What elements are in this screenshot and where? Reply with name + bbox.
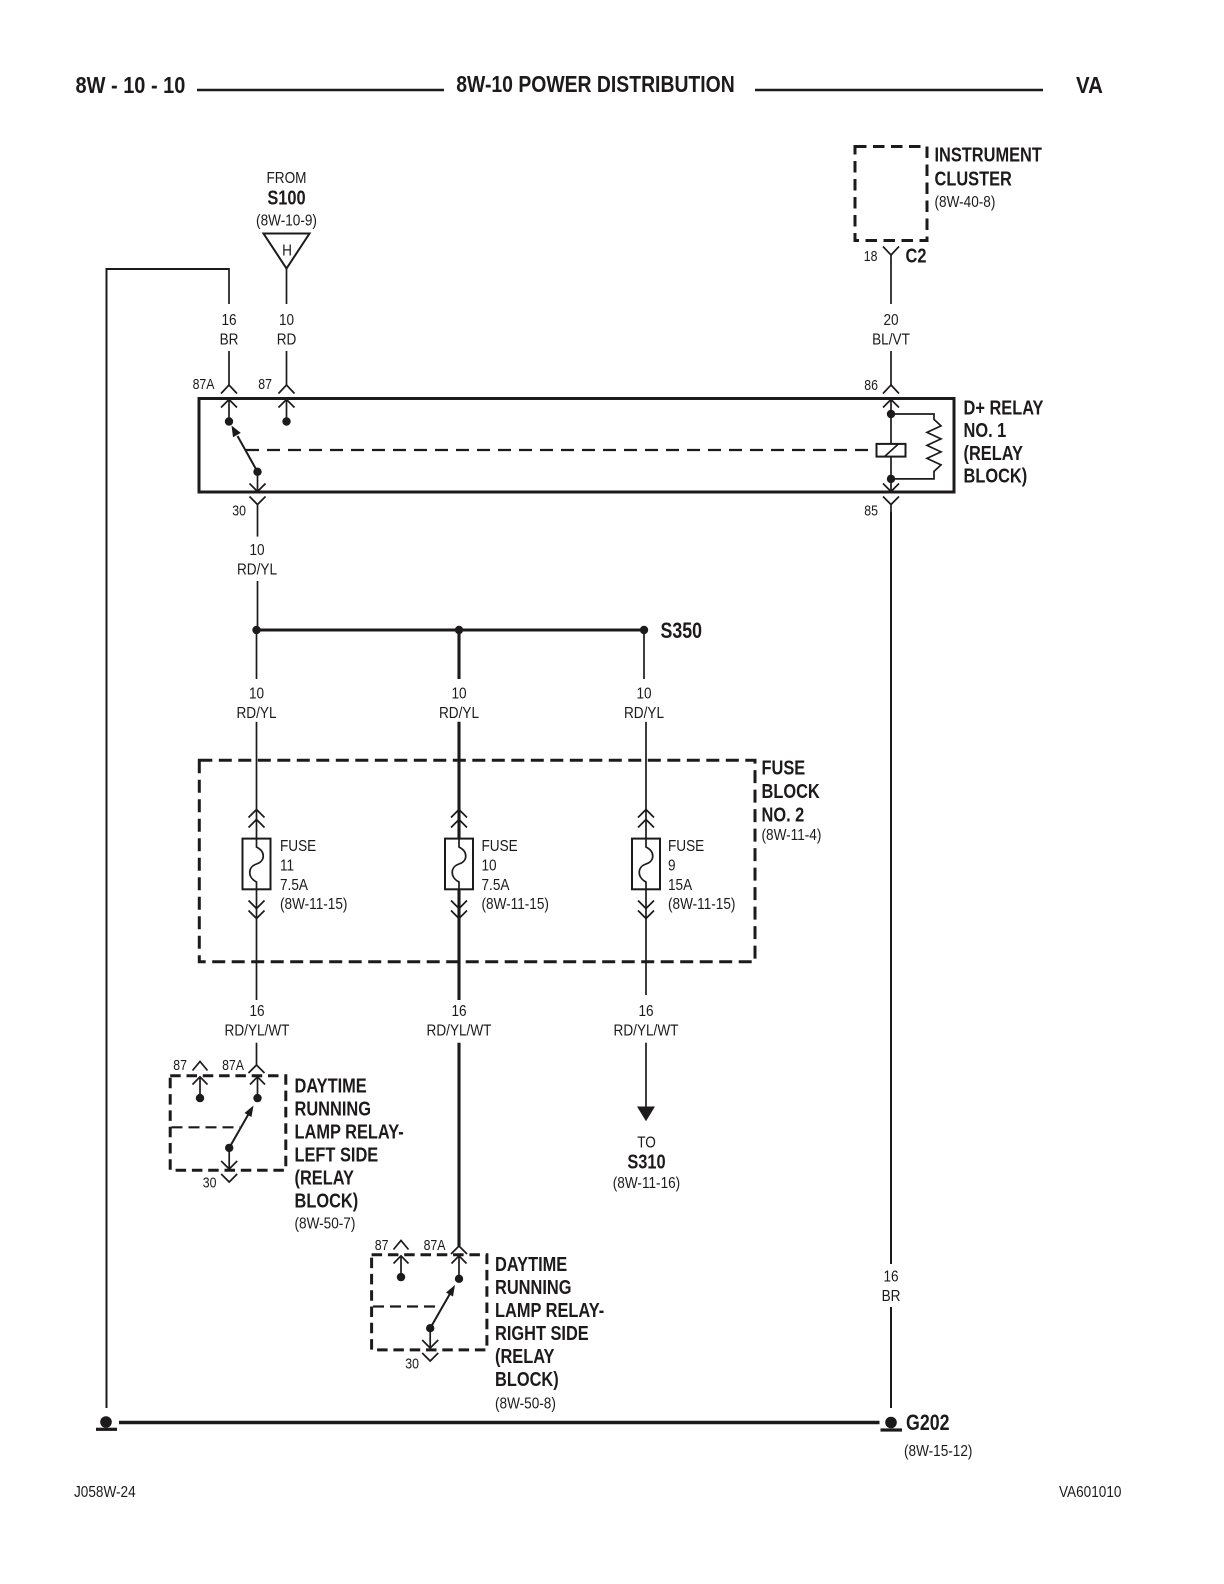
fuse 9 upper band clip — [638, 810, 654, 828]
pin 86 label — [864, 377, 878, 393]
header rule right — [755, 89, 1043, 92]
junction dot DRL left switch common — [225, 1144, 233, 1152]
svg-text:(8W-11-15): (8W-11-15) — [280, 896, 347, 913]
svg-text:85: 85 — [864, 503, 878, 519]
svg-text:BLOCK): BLOCK) — [295, 1189, 359, 1212]
connector C2 label — [906, 244, 927, 267]
svg-text:FUSE: FUSE — [668, 838, 704, 855]
svg-text:RD/YL/WT: RD/YL/WT — [427, 1023, 492, 1040]
header rule left — [197, 89, 444, 92]
instrument cluster labels — [935, 143, 1042, 211]
fuse block no.2 dashed box — [199, 760, 755, 962]
svg-text:INSTRUMENT: INSTRUMENT — [935, 143, 1042, 166]
svg-text:RUNNING: RUNNING — [495, 1276, 571, 1299]
svg-text:(RELAY: (RELAY — [964, 441, 1023, 464]
wire into fuse 9 — [645, 722, 647, 839]
relay coil wire through actuator — [890, 414, 892, 479]
label branch1 16 RD/YL/WT — [225, 1003, 290, 1040]
ground G202 reference label — [904, 1443, 972, 1460]
page header right title VA — [1076, 72, 1103, 99]
DRL left pin 87 internal arrow — [193, 1077, 208, 1095]
svg-text:BLOCK: BLOCK — [762, 779, 821, 802]
svg-text:S100: S100 — [267, 186, 305, 209]
svg-text:S310: S310 — [627, 1150, 665, 1173]
svg-text:CLUSTER: CLUSTER — [935, 167, 1012, 190]
label wire 16 BR right — [882, 1269, 901, 1306]
wire 16 BR right upper segment — [890, 512, 892, 1264]
off-page arrow to S310 — [637, 1107, 655, 1122]
junction dot S350 middle — [455, 626, 463, 634]
svg-text:FROM: FROM — [267, 170, 307, 187]
svg-text:87A: 87A — [193, 376, 215, 392]
label wire 20 BL/VT — [872, 312, 910, 349]
pin 87 internal arrow and stub — [279, 400, 295, 419]
splice S350 bus line — [256, 628, 644, 631]
svg-text:RUNNING: RUNNING — [295, 1097, 371, 1120]
wire out of fuse 9 — [645, 889, 647, 995]
svg-text:(RELAY: (RELAY — [495, 1345, 554, 1368]
off-page connector triangle H — [264, 234, 310, 269]
pin 30 internal arrow — [250, 472, 266, 492]
wire into fuse 11 — [256, 722, 258, 839]
label wire 16 BR — [220, 312, 239, 349]
connector terminal 87 DRL left (no wire) — [193, 1062, 208, 1071]
svg-text:D+ RELAY: D+ RELAY — [964, 396, 1044, 419]
DRL right pin 87A internal arrow — [452, 1256, 467, 1275]
wire out of fuse 11 — [256, 889, 258, 1000]
svg-text:G202: G202 — [906, 1411, 949, 1435]
svg-text:RD: RD — [277, 332, 297, 349]
relay internal dashed control link — [246, 449, 877, 451]
svg-text:86: 86 — [864, 377, 878, 393]
junction dot DRL left 87 — [196, 1094, 204, 1102]
svg-text:LAMP RELAY-: LAMP RELAY- — [495, 1299, 604, 1322]
svg-text:10: 10 — [279, 312, 294, 329]
ground bus line — [119, 1421, 880, 1424]
svg-text:FUSE: FUSE — [762, 756, 806, 779]
pin 30 label — [232, 503, 246, 519]
svg-text:NO. 2: NO. 2 — [762, 803, 805, 826]
fuse 9 labels — [668, 838, 735, 913]
svg-text:11: 11 — [280, 857, 294, 874]
svg-text:30: 30 — [405, 1356, 419, 1372]
svg-text:16: 16 — [221, 312, 236, 329]
wire branch 2 upper — [457, 630, 460, 679]
junction dot DRL right 87 — [397, 1273, 405, 1281]
connector C2 symbol — [883, 247, 899, 263]
label branch1 10 RD/YL — [236, 686, 276, 723]
svg-text:DAYTIME: DAYTIME — [495, 1253, 567, 1276]
pin 87A label DRL right — [424, 1237, 446, 1253]
junction dot 87 — [282, 417, 290, 425]
svg-text:(8W-50-7): (8W-50-7) — [295, 1216, 356, 1233]
pin 18 label — [864, 248, 878, 264]
wire 10 RD/YL from pin 30 upper — [257, 512, 259, 537]
junction dot switch common — [253, 468, 261, 476]
svg-text:FUSE: FUSE — [482, 838, 518, 855]
off-page reference FROM S100 labels — [256, 170, 317, 230]
wire branch 3 upper — [643, 630, 645, 679]
fuse 11 upper band clip — [249, 810, 265, 828]
ground terminal right bar — [881, 1428, 903, 1431]
svg-text:10: 10 — [482, 857, 497, 874]
svg-text:NO. 1: NO. 1 — [964, 419, 1007, 442]
fuse 10 lower band clip — [451, 901, 467, 919]
svg-text:20: 20 — [883, 312, 898, 329]
DRL right pin 30 internal arrow — [422, 1328, 438, 1348]
wire left vertical bus from node to ground — [106, 269, 108, 1408]
label wire 10 RD — [277, 312, 297, 349]
daytime running lamp relay right dashed box — [372, 1255, 487, 1350]
DRL left internal dashed control link — [172, 1126, 241, 1128]
DRL right pin 87 internal arrow — [394, 1256, 409, 1274]
wire 10 RD lower segment — [286, 351, 288, 385]
pin 85 internal arrow — [883, 481, 899, 492]
svg-text:87: 87 — [173, 1057, 187, 1073]
wire into fuse 10 — [457, 722, 460, 839]
wire 16 BR lower segment — [228, 351, 230, 385]
svg-text:(8W-11-15): (8W-11-15) — [482, 896, 549, 913]
pin 86 internal arrow and stub — [883, 400, 899, 412]
fuse 11 labels — [280, 838, 347, 913]
svg-text:10: 10 — [249, 542, 264, 559]
fuse 9 lower band clip — [638, 901, 654, 919]
label branch3 10 RD/YL — [624, 686, 664, 723]
junction dot 85 — [887, 475, 895, 483]
junction dot DRL right switch common — [426, 1324, 434, 1332]
relay coil resistance loop — [893, 414, 941, 479]
svg-text:S350: S350 — [661, 619, 703, 643]
connector terminal 30 DRL left — [221, 1174, 237, 1182]
connector terminal 30 DRL right — [422, 1353, 438, 1361]
svg-text:(8W-50-8): (8W-50-8) — [495, 1395, 556, 1412]
label branch2 10 RD/YL — [439, 686, 479, 723]
connector terminal 87A DRL left — [249, 1065, 265, 1073]
D+ relay name labels — [964, 396, 1044, 487]
svg-text:VA601010: VA601010 — [1059, 1484, 1121, 1501]
wire to DRL right relay — [457, 1043, 460, 1246]
svg-text:87A: 87A — [424, 1237, 446, 1253]
wire 20 BL/VT upper segment — [890, 262, 892, 304]
svg-text:RIGHT SIDE: RIGHT SIDE — [495, 1322, 589, 1345]
junction dot DRL right 87A — [455, 1275, 463, 1283]
page header center title 8W-10 POWER DISTRIBUTION — [456, 71, 734, 97]
svg-text:8W-10 POWER DISTRIBUTION: 8W-10 POWER DISTRIBUTION — [456, 71, 734, 97]
junction dot S350 left — [252, 626, 260, 634]
pin 87A label — [193, 376, 215, 392]
DRL left pin 87A internal arrow — [250, 1077, 265, 1095]
daytime running lamp relay left dashed box — [170, 1076, 286, 1170]
wire 10 RD/YL lower to splice — [257, 581, 259, 630]
svg-text:BR: BR — [220, 332, 239, 349]
pin 85 label — [864, 503, 878, 519]
DRL right internal dashed control link — [373, 1305, 441, 1307]
fuse 10 body — [445, 839, 473, 890]
connector terminal 30 below box — [250, 497, 266, 513]
wire 10 RD upper segment — [286, 269, 288, 305]
ground terminal left bar — [96, 1428, 117, 1431]
svg-text:7.5A: 7.5A — [280, 877, 308, 894]
pin 30 label DRL right — [405, 1356, 419, 1372]
svg-text:10: 10 — [451, 686, 466, 703]
DRL left switch arm with arrowhead — [229, 1106, 253, 1148]
svg-text:LAMP RELAY-: LAMP RELAY- — [295, 1120, 404, 1143]
svg-text:87: 87 — [375, 1237, 389, 1253]
svg-text:8W - 10 - 10: 8W - 10 - 10 — [76, 71, 186, 98]
junction dot 86 — [887, 410, 895, 418]
svg-text:16: 16 — [249, 1003, 264, 1020]
wire to S310 — [645, 1043, 647, 1108]
fuse 10 upper band clip — [451, 810, 467, 828]
svg-text:18: 18 — [864, 248, 878, 264]
svg-text:9: 9 — [668, 857, 676, 874]
pin 87 label DRL right — [375, 1237, 389, 1253]
svg-text:C2: C2 — [906, 244, 927, 267]
connector terminal 85 below box — [883, 497, 899, 513]
pin 30 label DRL left — [203, 1175, 217, 1191]
svg-text:RD/YL: RD/YL — [624, 705, 664, 722]
junction dot DRL left 87A — [253, 1094, 261, 1102]
wire 20 BL/VT lower segment — [890, 351, 892, 385]
svg-text:(8W-40-8): (8W-40-8) — [935, 194, 996, 211]
pin 87 label DRL left — [173, 1057, 187, 1073]
svg-text:BLOCK): BLOCK) — [495, 1368, 559, 1391]
svg-text:30: 30 — [232, 503, 246, 519]
svg-text:LEFT SIDE: LEFT SIDE — [295, 1143, 379, 1166]
svg-text:(8W-10-9): (8W-10-9) — [256, 213, 317, 230]
svg-text:15A: 15A — [668, 877, 692, 894]
DRL right name labels — [495, 1253, 604, 1413]
svg-text:RD/YL: RD/YL — [439, 705, 479, 722]
pin 87A label DRL left — [222, 1057, 244, 1073]
wire horizontal top left — [106, 268, 230, 270]
junction dot S350 right — [640, 626, 648, 634]
connector terminal 87 DRL right (no wire) — [394, 1241, 409, 1250]
wire 16 BR right lower segment — [890, 1307, 892, 1408]
svg-text:BL/VT: BL/VT — [872, 332, 910, 349]
svg-text:(8W-11-4): (8W-11-4) — [762, 827, 822, 844]
svg-text:H: H — [282, 243, 292, 260]
svg-text:BR: BR — [882, 1288, 901, 1305]
instrument cluster dashed box — [855, 147, 927, 241]
pin 87A internal arrow and stub — [221, 400, 237, 419]
label wire 10 RD/YL — [237, 542, 277, 579]
fuse 11 body — [243, 839, 271, 890]
footer right code VA601010 — [1059, 1484, 1121, 1501]
svg-text:(8W-11-15): (8W-11-15) — [668, 896, 735, 913]
connector terminal 87A DRL right — [451, 1246, 467, 1254]
DRL right switch arm with arrowhead — [430, 1285, 455, 1328]
wire 16 BR upper segment — [228, 268, 230, 304]
wire to DRL left relay — [256, 1043, 258, 1065]
svg-text:RD/YL/WT: RD/YL/WT — [225, 1023, 290, 1040]
svg-text:DAYTIME: DAYTIME — [295, 1074, 367, 1097]
svg-text:RD/YL: RD/YL — [236, 705, 276, 722]
connector terminal 87 (female symbol) — [279, 385, 295, 394]
off-page reference TO S310 labels — [613, 1135, 680, 1193]
wire out of fuse 10 — [457, 889, 460, 1000]
pin 87 label — [258, 376, 272, 392]
page header left title 8W - 10 - 10 — [76, 71, 186, 98]
connector terminal 86 (female symbol) — [883, 385, 899, 394]
relay coil actuator box with slash — [877, 444, 906, 457]
fuse 11 lower band clip — [249, 901, 265, 919]
svg-text:(8W-15-12): (8W-15-12) — [904, 1443, 972, 1460]
relay block D+ relay no.1 outline box — [199, 399, 954, 493]
splice S350 label — [661, 619, 703, 643]
fuse 9 body — [632, 839, 660, 890]
wire branch 1 upper — [256, 630, 258, 679]
svg-text:16: 16 — [638, 1003, 653, 1020]
svg-text:30: 30 — [203, 1175, 217, 1191]
fuse block no.2 labels — [762, 756, 822, 844]
connector terminal 87A (female symbol) — [221, 385, 237, 394]
svg-text:87: 87 — [258, 376, 272, 392]
label branch2 16 RD/YL/WT — [427, 1003, 492, 1040]
DRL left name labels — [295, 1074, 404, 1233]
svg-text:10: 10 — [249, 686, 264, 703]
svg-text:BLOCK): BLOCK) — [964, 464, 1028, 487]
footer left code J058W-24 — [74, 1484, 136, 1501]
svg-text:J058W-24: J058W-24 — [74, 1484, 136, 1501]
label branch3 16 RD/YL/WT — [614, 1003, 679, 1040]
ground terminal left dot — [100, 1416, 112, 1428]
svg-text:16: 16 — [883, 1269, 898, 1286]
svg-text:RD/YL/WT: RD/YL/WT — [614, 1023, 679, 1040]
switch arm with arrowhead (relay contact) — [232, 426, 258, 472]
ground G202 label — [906, 1411, 949, 1435]
svg-text:FUSE: FUSE — [280, 838, 316, 855]
svg-text:RD/YL: RD/YL — [237, 562, 277, 579]
ground terminal right dot — [885, 1417, 897, 1429]
DRL left pin 30 internal arrow — [221, 1148, 237, 1169]
svg-text:(8W-11-16): (8W-11-16) — [613, 1175, 680, 1192]
svg-text:10: 10 — [636, 686, 651, 703]
svg-text:(RELAY: (RELAY — [295, 1166, 354, 1189]
svg-text:87A: 87A — [222, 1057, 244, 1073]
junction dot 87A — [225, 417, 233, 425]
fuse 10 labels — [482, 838, 549, 913]
svg-text:7.5A: 7.5A — [482, 877, 510, 894]
svg-text:VA: VA — [1076, 72, 1103, 99]
svg-text:16: 16 — [451, 1003, 466, 1020]
